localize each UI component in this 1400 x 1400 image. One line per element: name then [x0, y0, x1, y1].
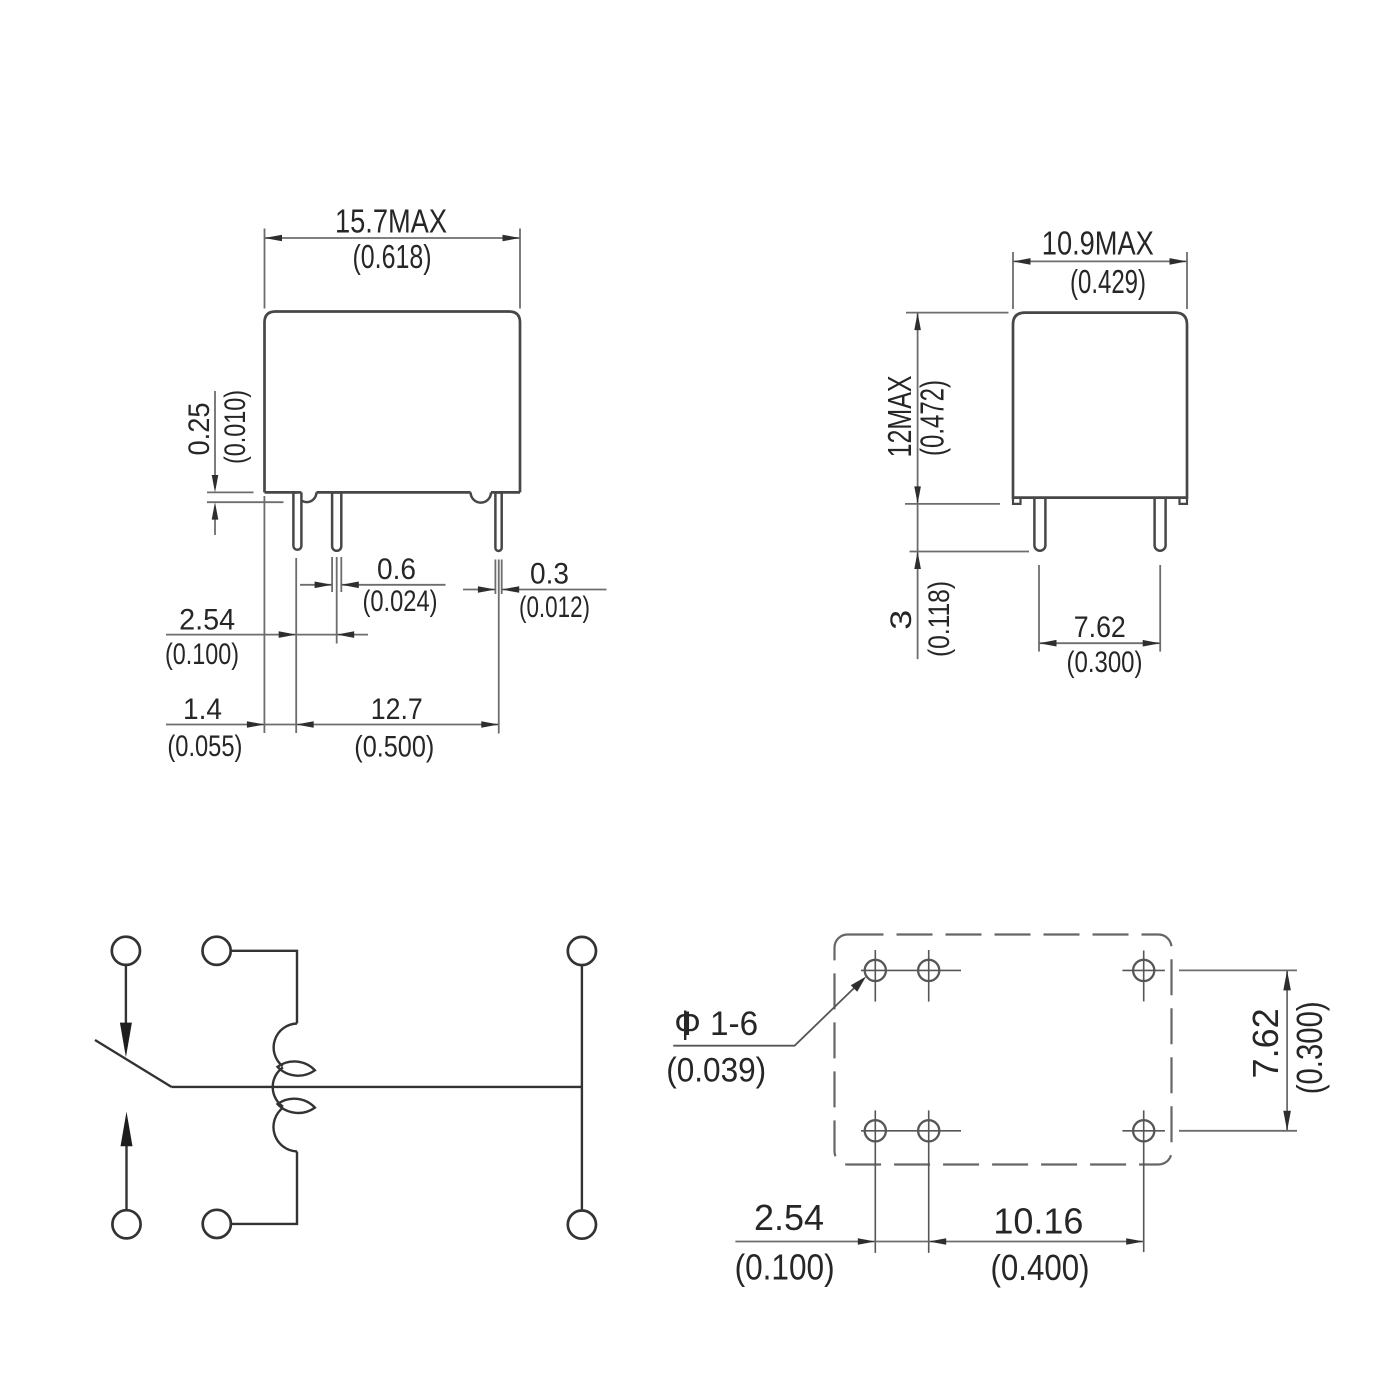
arrowhead of 2.54 pointing right [279, 631, 297, 638]
terminal circle bottom-mid (schematic) [203, 1210, 231, 1238]
svg-text:2.54: 2.54 [179, 604, 235, 637]
arrowhead of 12.7 pointing left [296, 721, 314, 728]
arrowhead of 0.6 pointing right [315, 582, 333, 589]
pin right (side view) [1155, 498, 1166, 551]
center tick horizontal hole 3 [1122, 969, 1165, 971]
svg-text:(0.010): (0.010) [219, 390, 252, 464]
dimension 0.3 extension lines [495, 560, 501, 595]
arrowhead left of 15.7MAX [265, 235, 283, 242]
svg-text:15.7MAX: 15.7MAX [335, 203, 447, 240]
arrowhead of 1.4 pointing right [247, 721, 265, 728]
svg-text:(0.400): (0.400) [991, 1247, 1090, 1288]
pin 3 (front view right pin) [495, 492, 501, 551]
svg-text:0.3: 0.3 [530, 558, 569, 591]
extension line pin3 center [498, 560, 500, 734]
arrowhead of pcb 2.54 pointing left [929, 1238, 947, 1245]
dimension 2.54 / 10.16 line (pcb) [735, 1241, 1143, 1243]
center tick vertical hole 6 and extension [1143, 1110, 1145, 1252]
svg-text:(0.500): (0.500) [354, 731, 434, 764]
arrowhead left of 7.62 [1039, 640, 1057, 647]
center tick vertical hole 4 and extension [874, 1110, 876, 1253]
svg-text:3: 3 [885, 610, 918, 630]
dimension 1.4 / 12.7 line [166, 724, 499, 726]
svg-text:(0.472): (0.472) [914, 380, 951, 456]
dimension 15.7MAX extension lines [265, 229, 521, 309]
common wire horizontal (schematic) [171, 1086, 582, 1088]
pin left (side view) [1034, 498, 1045, 551]
hole 6 (pcb bottom-right) [1133, 1120, 1154, 1141]
arrowhead of 0.3 pointing left [502, 586, 520, 593]
svg-text:10.16: 10.16 [993, 1201, 1083, 1242]
svg-text:12MAX: 12MAX [881, 375, 918, 457]
arrowhead of 0.6 pointing left [341, 582, 359, 589]
coil upper arc [274, 1024, 297, 1067]
svg-text:(0.012): (0.012) [519, 591, 590, 624]
normally-open contact arrow shaft (up) [125, 1145, 127, 1210]
coil lower arc [273, 1107, 297, 1151]
svg-text:Φ 1-6: Φ 1-6 [674, 1005, 758, 1043]
arrowhead up of 0.25 [212, 502, 219, 519]
dimension 7.62 vertical line (pcb) [1286, 970, 1288, 1130]
terminal circle bottom-left (schematic) [112, 1210, 140, 1238]
svg-text:12.7: 12.7 [371, 693, 423, 726]
center tick horizontal through holes 4-5 [861, 1130, 961, 1132]
hole 3 (pcb top-right) [1133, 960, 1154, 981]
standoff notch right (front view) [471, 492, 491, 502]
dimension 2.54 line [166, 634, 368, 636]
arrowhead up of pcb 7.62 [1283, 970, 1291, 990]
center tick vertical hole 5 and extension [928, 1110, 930, 1253]
hole 2 (pcb top-mid) [918, 960, 939, 981]
normally-open contact arrowhead (up) [121, 1112, 133, 1147]
svg-text:1.4: 1.4 [183, 693, 222, 726]
movable contact arrowhead (down) [120, 1023, 132, 1058]
center tick horizontal through holes 1-2 [861, 969, 961, 971]
standoff notch left (front view) [297, 492, 316, 502]
arrowhead up of 12MAX [914, 313, 921, 331]
dimension 0.6 line right part [341, 584, 445, 586]
dimension 0.6 extension lines [332, 557, 341, 644]
hole 1 (pcb top-left) [865, 960, 886, 981]
center tick vertical hole 1 [874, 950, 876, 1002]
right contact vertical wire (schematic) [581, 965, 583, 1210]
arrowhead up of 3 [914, 552, 921, 570]
coil middle arc [273, 1067, 283, 1106]
relay body outline (front view) [265, 312, 521, 493]
relay body outline (side view) [1013, 313, 1187, 498]
svg-text:(0.100): (0.100) [735, 1247, 835, 1288]
dimension 0.3 line left part [463, 589, 495, 591]
svg-text:(0.024): (0.024) [363, 585, 438, 618]
leader arrowhead [851, 977, 866, 992]
extension line body left edge [263, 496, 265, 733]
svg-text:2.54: 2.54 [754, 1197, 824, 1238]
svg-text:(0.118): (0.118) [923, 581, 956, 657]
arrowhead of 2.54 pointing left [337, 631, 355, 638]
hole 4 (pcb bottom-left) [865, 1120, 886, 1141]
terminal circle bottom-right (schematic) [568, 1211, 596, 1239]
svg-text:10.9MAX: 10.9MAX [1042, 225, 1154, 262]
body bottom edge (front view) [265, 491, 521, 494]
terminal circle top-left (schematic) [112, 937, 140, 965]
center tick vertical hole 2 [928, 950, 930, 1002]
dimension 15.7MAX line [265, 237, 521, 239]
svg-text:(0.300): (0.300) [1289, 1001, 1330, 1094]
mounting tab right (side view) [1180, 498, 1188, 504]
pin 1 (front view left pin) [293, 492, 301, 549]
svg-text:7.62: 7.62 [1245, 1008, 1286, 1078]
extension line pin1 center [295, 558, 297, 733]
switch blade (schematic) [95, 1040, 171, 1087]
svg-text:0.25: 0.25 [183, 403, 216, 456]
arrowhead right of 10.9MAX [1170, 258, 1188, 265]
label diameter 1-6 [684, 1011, 686, 1041]
arrowhead of 0.3 pointing right [478, 586, 496, 593]
arrowhead down of 12MAX [914, 486, 921, 504]
dimension 7.62 extension lines (pcb) [1179, 970, 1297, 1130]
arrowhead right of 15.7MAX [503, 235, 521, 242]
coil feed wire from top-mid terminal [231, 951, 297, 1024]
center tick vertical hole 3 [1143, 951, 1145, 1002]
arrowhead of pcb 10.16 pointing right [1126, 1238, 1144, 1245]
svg-text:(0.429): (0.429) [1070, 263, 1146, 300]
dimension 0.25 extension lines [207, 492, 284, 502]
arrowhead of 12.7 pointing right [481, 721, 499, 728]
dimension 0.6 line left part [300, 584, 332, 586]
terminal circle top-right (schematic) [568, 937, 596, 965]
dimension 7.62 extension lines (side view) [1039, 565, 1160, 652]
svg-text:(0.100): (0.100) [165, 638, 239, 671]
terminal circle top-mid (schematic) [203, 937, 231, 965]
arrowhead right of 7.62 [1143, 640, 1161, 647]
coil return wire to bottom-mid terminal [231, 1152, 297, 1224]
dimension 12MAX / 3 vertical line [917, 313, 919, 659]
dimension 0.3 line right part [502, 589, 607, 591]
dimension 0.25 arrow lines [214, 391, 216, 535]
mounting tab left (side view) [1013, 498, 1021, 504]
pin 2 (front view middle pin) [332, 492, 341, 550]
arrowhead down of 0.25 [212, 475, 219, 492]
dimension 12MAX extension lines [905, 313, 1029, 552]
dimension 7.62 line (side view) [1039, 642, 1160, 644]
svg-text:7.62: 7.62 [1074, 611, 1126, 644]
movable contact arrow shaft (down) [125, 965, 127, 1024]
leader line for hole diameter [673, 979, 863, 1045]
arrowhead left of 10.9MAX [1013, 258, 1031, 265]
svg-text:0.6: 0.6 [377, 553, 416, 586]
arrowhead of pcb 2.54 pointing right [858, 1238, 876, 1245]
coil upper loop [278, 1061, 315, 1075]
center tick horizontal hole 6 [1122, 1130, 1165, 1132]
dimension 10.9MAX line [1013, 260, 1187, 262]
svg-text:(0.618): (0.618) [353, 238, 432, 275]
svg-text:(0.300): (0.300) [1067, 646, 1143, 679]
arrowhead down of pcb 7.62 [1283, 1111, 1291, 1131]
PCB dashed outline (bottom view) [835, 935, 1172, 1165]
hole 5 (pcb bottom-mid) [918, 1120, 939, 1141]
svg-text:(0.055): (0.055) [167, 730, 242, 763]
coil lower loop [278, 1099, 315, 1113]
dimension 10.9MAX extension lines [1013, 252, 1187, 309]
svg-text:(0.039): (0.039) [666, 1052, 766, 1090]
